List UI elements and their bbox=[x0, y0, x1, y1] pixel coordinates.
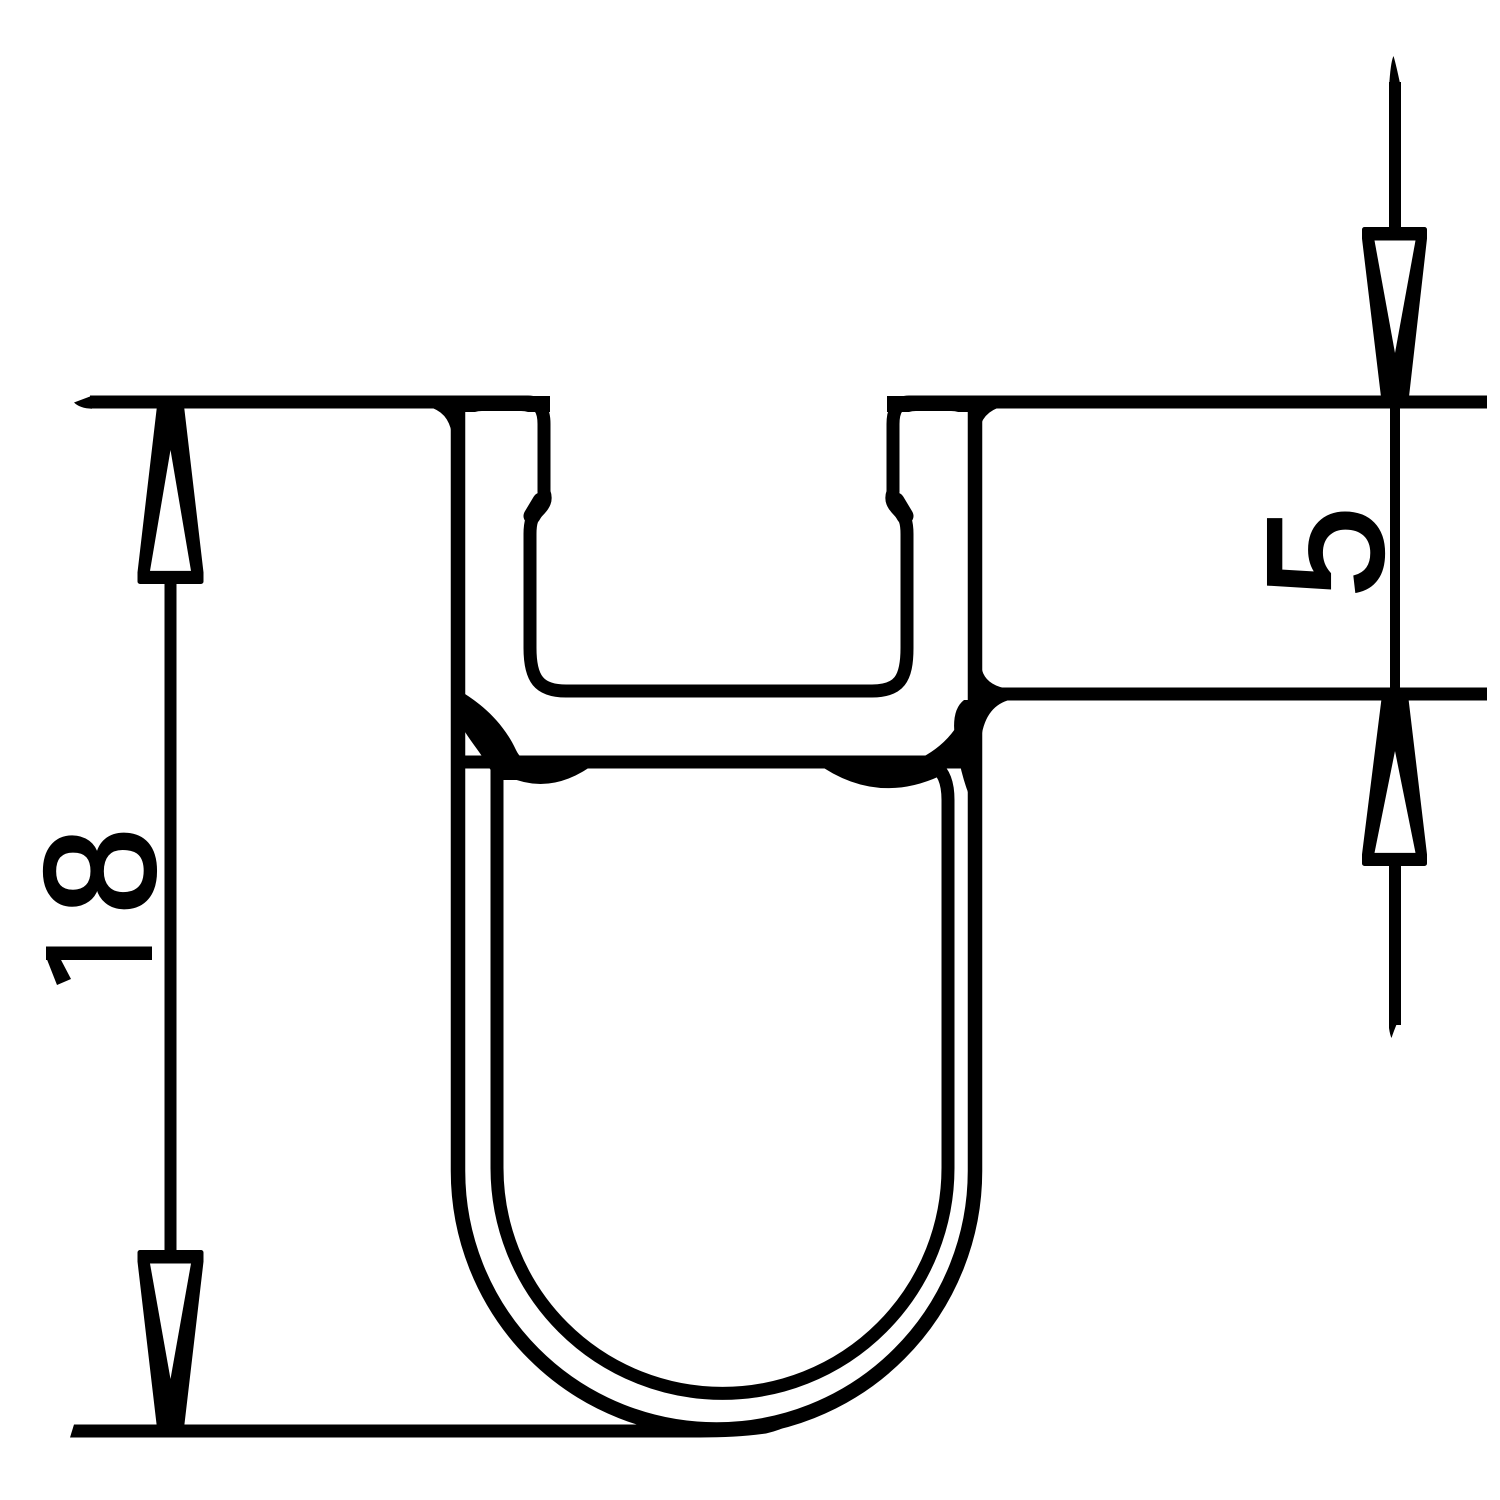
dimension 5: line between datums bbox=[1390, 398, 1400, 696]
wire: top reference line + channel inner contour (left wall inner face, floor, right wall inner face) bbox=[90, 402, 1487, 691]
node: notch elbow thickening right wall bbox=[896, 501, 905, 516]
dimension 18: value label "1" (drawn) bbox=[46, 947, 152, 961]
wire: right reference line (5 dimension lower datum) bbox=[976, 688, 1487, 701]
node: right sag blob on floor bottom bbox=[815, 762, 940, 788]
dimension 5: lower extension line with tapered end bbox=[1389, 865, 1401, 1025]
dimension 18: lower arrowhead (pointing down) bbox=[140, 1253, 201, 1429]
node: outer corner fillets under top line bbox=[428, 407, 452, 434]
svg-text:5: 5 bbox=[1233, 506, 1417, 598]
dimension 5: upper extension line above top datum bbox=[1389, 82, 1401, 230]
node: black wedge at bulb top-right junction bbox=[954, 700, 982, 795]
wire: top reference line left taper end bbox=[74, 396, 92, 409]
node: floor-bottom right fillet to outer wall bbox=[902, 701, 968, 766]
wire: bulb inner loop bbox=[497, 763, 948, 1393]
wire: channel floor bottom line (bulb top) bbox=[462, 756, 970, 769]
dimension 5: upper arrowhead (pointing down onto top line) bbox=[1365, 230, 1425, 402]
svg-text:8: 8 bbox=[13, 827, 188, 914]
dimension 18: vertical dimension line bbox=[165, 583, 177, 1251]
node: left sag blob on floor bottom bbox=[485, 762, 597, 784]
node: right wall cap bbox=[887, 396, 982, 412]
node: notch elbow thickening left wall bbox=[532, 501, 541, 516]
node: fillet below second line at right wall bbox=[982, 699, 1014, 733]
wire: bottom reference line bbox=[70, 1425, 790, 1438]
node: left wall cap bbox=[452, 396, 551, 412]
dimension 18: upper arrowhead (pointing up) bbox=[140, 406, 201, 582]
node: bulb inner-wall top flare (left) bbox=[462, 692, 545, 780]
dimension 5: lower arrowhead (pointing up onto second line) bbox=[1365, 699, 1425, 864]
node: fillet above second line at right wall bbox=[982, 670, 1004, 688]
wire: profile outer contour (left wall outer edge, bulb outer loop, right wall outer edge) bbox=[458, 404, 975, 1430]
